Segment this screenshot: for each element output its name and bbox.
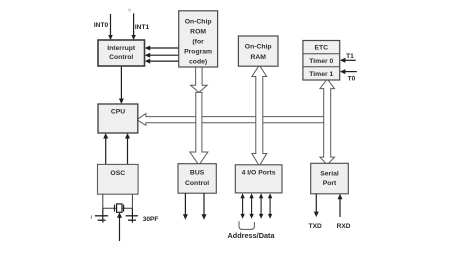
- svg-text:On-Chip: On-Chip: [245, 43, 272, 50]
- svg-text:ETC: ETC: [314, 45, 328, 52]
- wire IO port double arrow 1: [240, 193, 244, 219]
- wire BUS Control output arrow left: [183, 193, 188, 220]
- wire OSC left leg to crystal: [102, 194, 104, 208]
- svg-text:CPU: CPU: [111, 109, 125, 116]
- wire ROM to Interrupt Control arrow 1: [145, 46, 179, 51]
- wire OSC to CPU arrow left: [103, 133, 108, 164]
- svg-text:T0: T0: [348, 75, 356, 82]
- wire IO port double arrow 4: [268, 193, 272, 219]
- wire IO port double arrow 3: [259, 193, 263, 219]
- wire OSC right leg to crystal: [131, 194, 133, 208]
- wire clock input arrow into crystal: [117, 212, 122, 241]
- svg-text:Port: Port: [323, 180, 337, 187]
- crystal XTAL left plate: [114, 205, 116, 212]
- svg-text:On-Chip: On-Chip: [185, 19, 212, 26]
- svg-text:BUS: BUS: [190, 170, 205, 177]
- wire RXD input arrow: [338, 194, 343, 217]
- svg-text:Control: Control: [185, 180, 209, 187]
- box 4 I/O Ports: [235, 165, 282, 193]
- svg-text:(for: (for: [192, 39, 204, 46]
- wire crystal horizontal rail: [103, 207, 133, 209]
- svg-text:INT1: INT1: [135, 24, 150, 31]
- box OSC: [98, 164, 139, 194]
- box CPU: [98, 104, 138, 133]
- capacitor C2 bottom plate: [128, 219, 136, 221]
- wire ROM to Interrupt Control arrow 3: [145, 59, 179, 64]
- svg-text:Program: Program: [184, 49, 212, 56]
- wire T1 arrow into Timer 0: [340, 58, 356, 63]
- crystal XTAL right plate: [123, 205, 125, 212]
- wire INT0 arrow into Interrupt Control: [108, 14, 113, 40]
- wire T0 arrow into Timer 1: [340, 69, 357, 74]
- svg-text:T1: T1: [346, 53, 354, 60]
- box On-Chip RAM: [238, 36, 278, 66]
- wire INT1 arrow into Interrupt Control: [131, 13, 136, 40]
- svg-text:code): code): [189, 58, 207, 65]
- svg-text:Timer 0: Timer 0: [309, 58, 333, 65]
- capacitor C1 lead: [102, 208, 104, 223]
- svg-text:Interrupt: Interrupt: [107, 45, 136, 52]
- wire ROM to Interrupt Control arrow 2: [145, 53, 179, 58]
- svg-text:ROM: ROM: [190, 29, 206, 36]
- svg-text:Address/Data: Address/Data: [227, 231, 275, 240]
- capacitor C1 top plate: [95, 215, 108, 217]
- wire TXD output arrow: [314, 194, 319, 217]
- bus RAM to IO ports vertical hollow double arrow: [252, 65, 267, 166]
- node artifact dot above INT1: [128, 8, 131, 11]
- box Serial Port: [311, 163, 349, 194]
- wire OSC to CPU arrow right: [125, 133, 130, 164]
- bus Timer to Serial Port vertical hollow double arrow: [320, 79, 335, 165]
- svg-text:Serial: Serial: [320, 171, 339, 178]
- bus ROM vertical hollow arrow (upper piece with down head): [191, 66, 208, 92]
- svg-text:RAM: RAM: [250, 54, 266, 61]
- wire BUS Control output arrow right: [202, 193, 207, 220]
- bus horizontal data bus to CPU (hollow arrow): [137, 114, 330, 126]
- wire IO port double arrow 2: [249, 193, 253, 219]
- capacitor C1 bottom plate: [98, 219, 106, 221]
- box On-Chip ROM: [179, 11, 218, 67]
- svg-text:OSC: OSC: [110, 170, 125, 177]
- svg-text:Timer 1: Timer 1: [309, 71, 333, 78]
- svg-text:30PF: 30PF: [143, 216, 159, 223]
- svg-text:Control: Control: [109, 54, 133, 61]
- crystal XTAL body: [117, 204, 122, 212]
- capacitor C2 top plate: [126, 215, 138, 217]
- svg-text:TXD: TXD: [309, 223, 322, 230]
- capacitor C2 lead: [131, 208, 133, 223]
- box Interrupt Control: [98, 40, 145, 66]
- box BUS Control: [178, 164, 216, 194]
- wire Interrupt Control to CPU arrow: [119, 66, 124, 104]
- svg-text:RXD: RXD: [337, 223, 351, 230]
- node artifact tick left of C1: [90, 215, 92, 219]
- bracket under address/data arrows: [239, 221, 254, 229]
- svg-text:4 I/O Ports: 4 I/O Ports: [242, 170, 276, 177]
- svg-text:INT0: INT0: [94, 22, 109, 29]
- box ETC / Timer stack: [303, 41, 340, 81]
- bus ROM shaft to BUS Control (hollow down arrow): [190, 92, 208, 165]
